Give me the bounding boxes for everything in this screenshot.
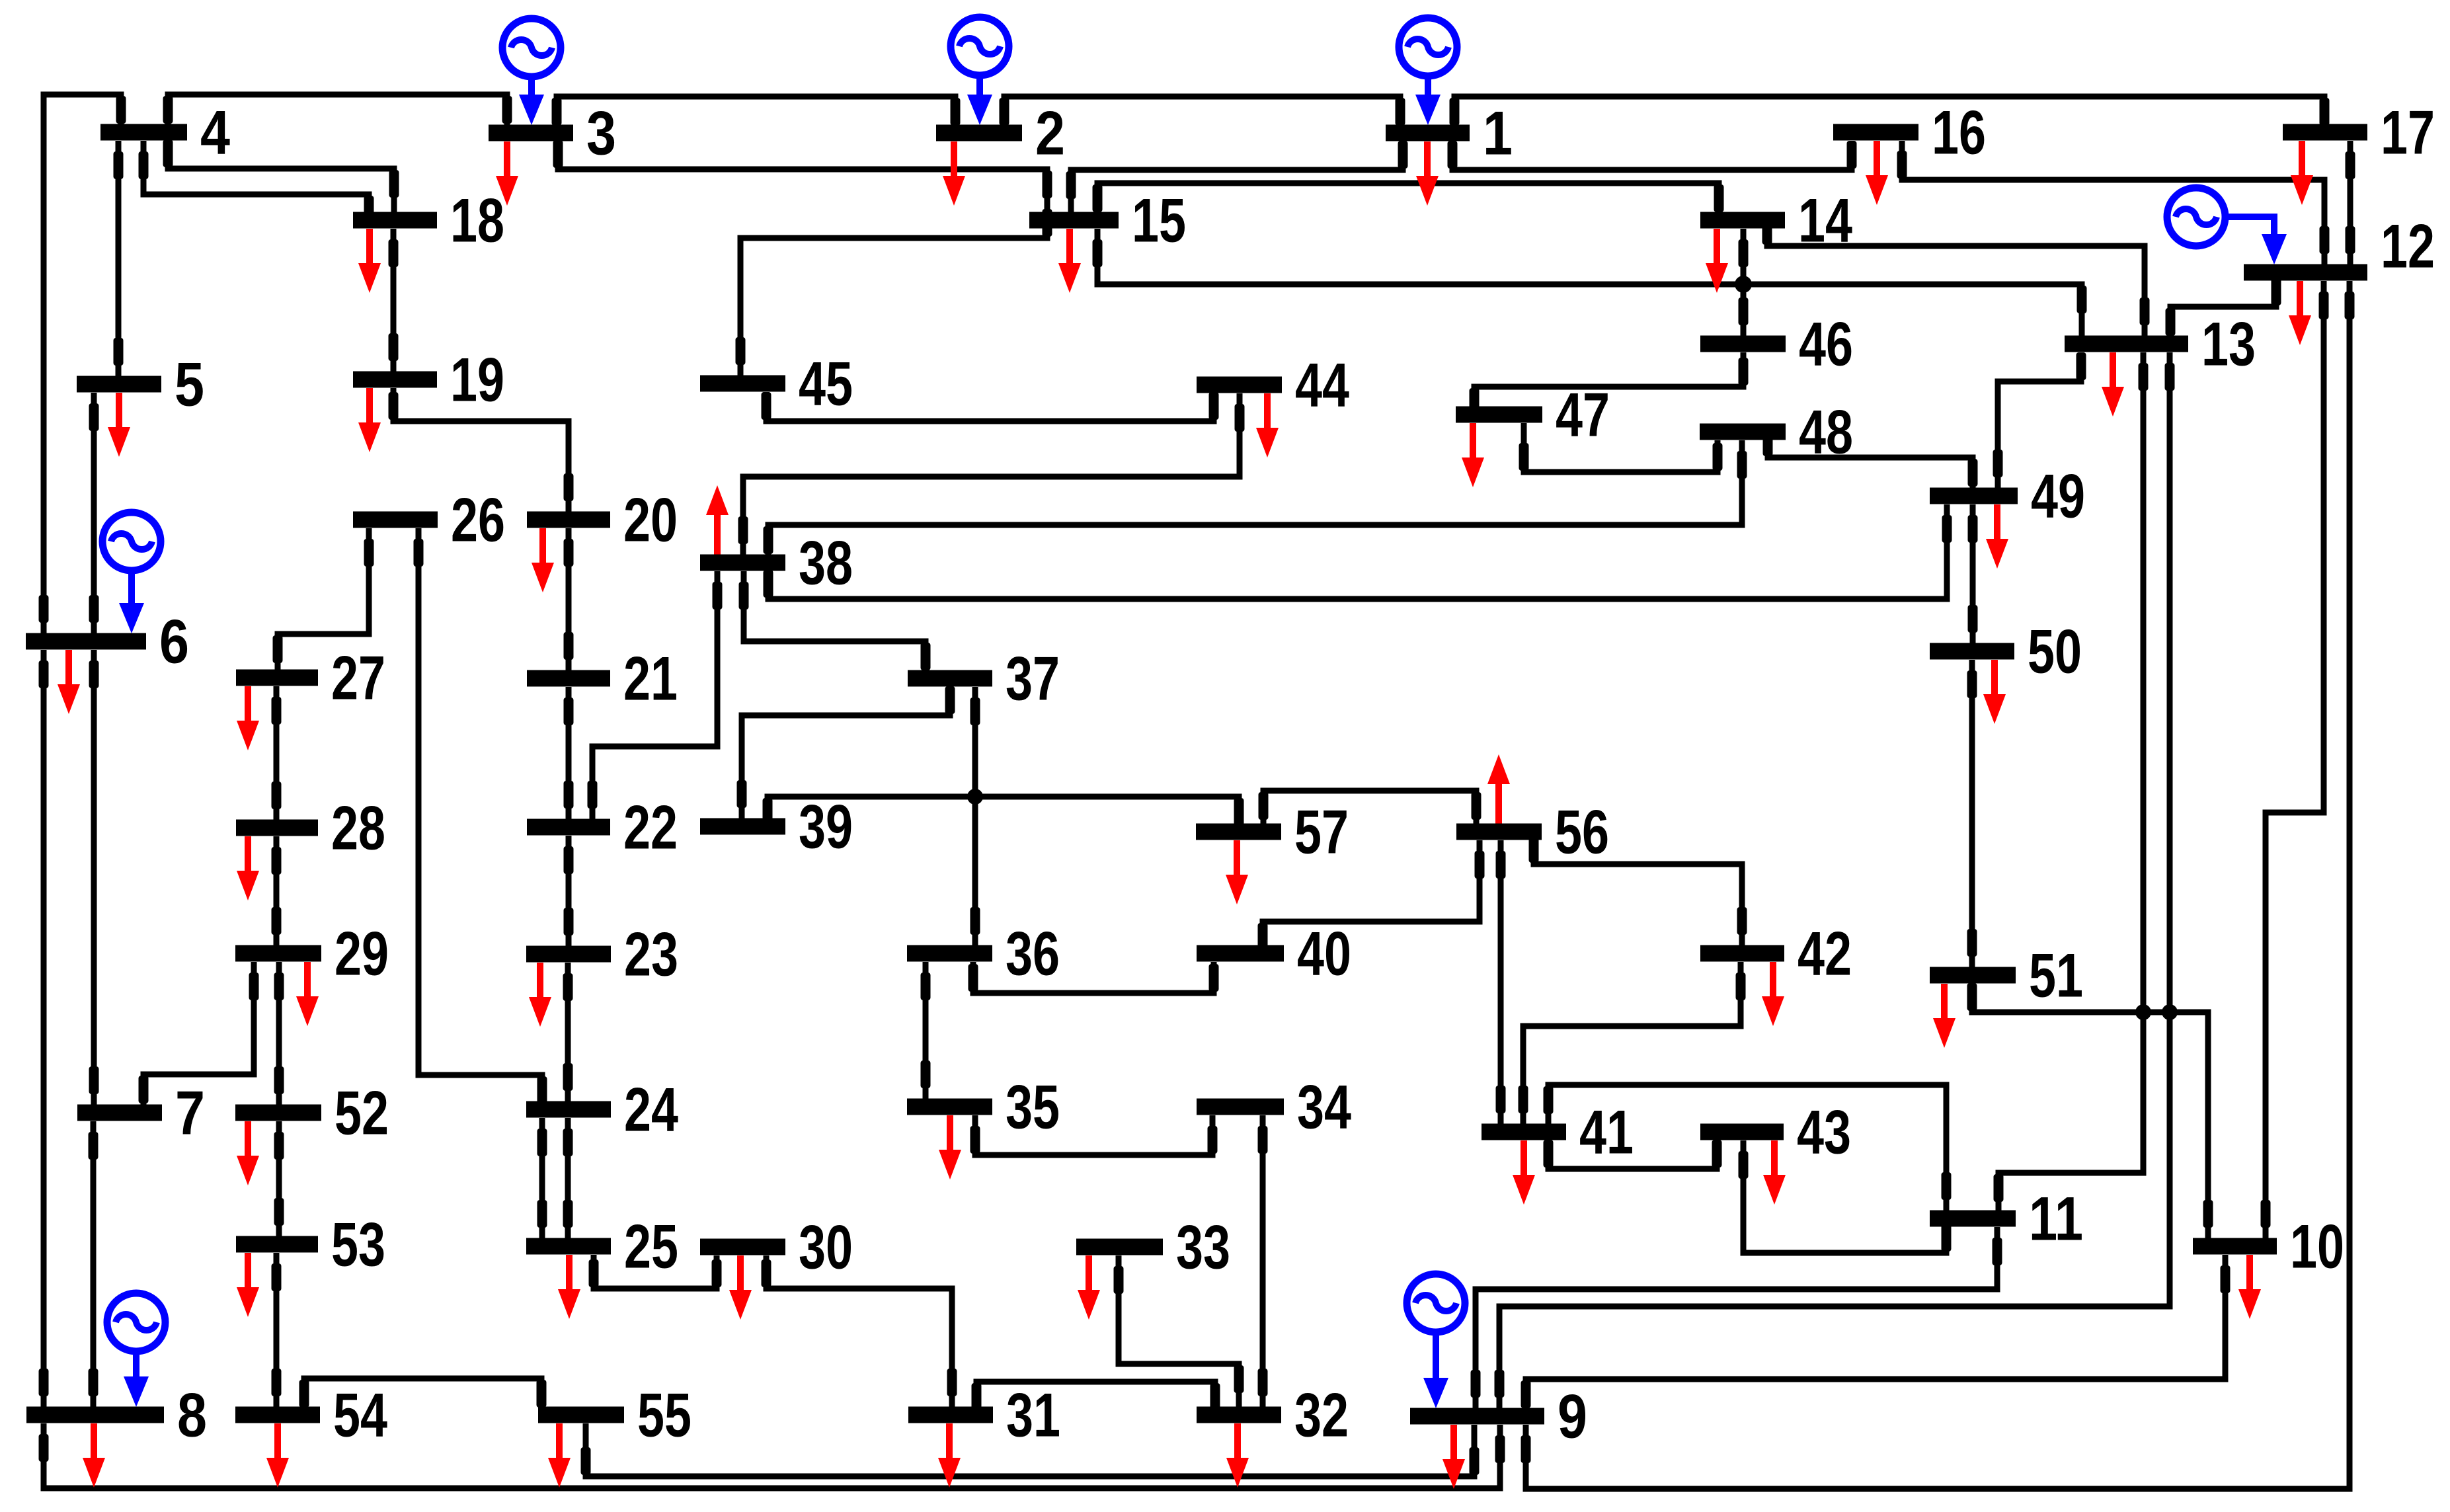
svg-text:3: 3 xyxy=(586,99,616,168)
svg-text:21: 21 xyxy=(623,644,678,713)
svg-text:25: 25 xyxy=(624,1212,678,1281)
svg-text:1: 1 xyxy=(1483,99,1513,168)
svg-text:40: 40 xyxy=(1297,919,1351,988)
svg-text:27: 27 xyxy=(331,643,385,713)
svg-text:34: 34 xyxy=(1297,1072,1351,1142)
svg-text:26: 26 xyxy=(451,485,505,555)
svg-text:54: 54 xyxy=(333,1380,387,1450)
svg-text:2: 2 xyxy=(1035,99,1065,168)
svg-text:41: 41 xyxy=(1579,1097,1634,1167)
svg-text:30: 30 xyxy=(799,1213,853,1282)
svg-text:44: 44 xyxy=(1295,350,1349,420)
svg-text:33: 33 xyxy=(1176,1213,1230,1282)
svg-text:46: 46 xyxy=(1799,309,1853,379)
svg-text:49: 49 xyxy=(2031,461,2085,531)
svg-text:48: 48 xyxy=(1799,397,1853,467)
svg-text:19: 19 xyxy=(450,345,504,415)
svg-text:37: 37 xyxy=(1006,644,1060,713)
svg-text:42: 42 xyxy=(1798,919,1852,988)
svg-text:5: 5 xyxy=(175,350,204,419)
svg-text:45: 45 xyxy=(799,349,853,418)
svg-text:36: 36 xyxy=(1006,919,1060,988)
svg-text:55: 55 xyxy=(637,1380,692,1450)
svg-text:57: 57 xyxy=(1294,797,1349,867)
svg-text:39: 39 xyxy=(799,792,853,861)
svg-text:12: 12 xyxy=(2381,212,2435,281)
svg-text:4: 4 xyxy=(200,98,230,167)
svg-text:11: 11 xyxy=(2029,1184,2083,1253)
svg-text:18: 18 xyxy=(450,186,504,255)
svg-text:13: 13 xyxy=(2201,309,2256,379)
svg-text:8: 8 xyxy=(177,1380,207,1450)
svg-text:7: 7 xyxy=(175,1078,205,1148)
svg-text:31: 31 xyxy=(1006,1380,1060,1450)
svg-text:38: 38 xyxy=(799,528,853,598)
svg-text:32: 32 xyxy=(1294,1380,1349,1450)
svg-text:20: 20 xyxy=(623,485,678,555)
svg-text:50: 50 xyxy=(2028,617,2082,686)
svg-text:15: 15 xyxy=(1132,186,1186,255)
svg-text:47: 47 xyxy=(1556,380,1610,450)
svg-text:14: 14 xyxy=(1798,186,1852,255)
svg-text:6: 6 xyxy=(159,607,189,676)
svg-text:43: 43 xyxy=(1797,1097,1851,1167)
svg-text:9: 9 xyxy=(1558,1382,1587,1451)
svg-text:10: 10 xyxy=(2290,1212,2344,1281)
svg-text:29: 29 xyxy=(335,919,389,988)
svg-text:52: 52 xyxy=(335,1078,389,1148)
svg-text:23: 23 xyxy=(624,920,678,989)
svg-text:53: 53 xyxy=(331,1210,385,1279)
svg-text:17: 17 xyxy=(2381,98,2435,167)
svg-text:56: 56 xyxy=(1555,797,1609,867)
svg-text:16: 16 xyxy=(1932,98,1986,167)
svg-text:22: 22 xyxy=(623,793,678,862)
svg-text:51: 51 xyxy=(2029,941,2083,1010)
svg-text:28: 28 xyxy=(331,793,385,863)
svg-text:35: 35 xyxy=(1006,1072,1060,1142)
svg-text:24: 24 xyxy=(624,1075,678,1144)
